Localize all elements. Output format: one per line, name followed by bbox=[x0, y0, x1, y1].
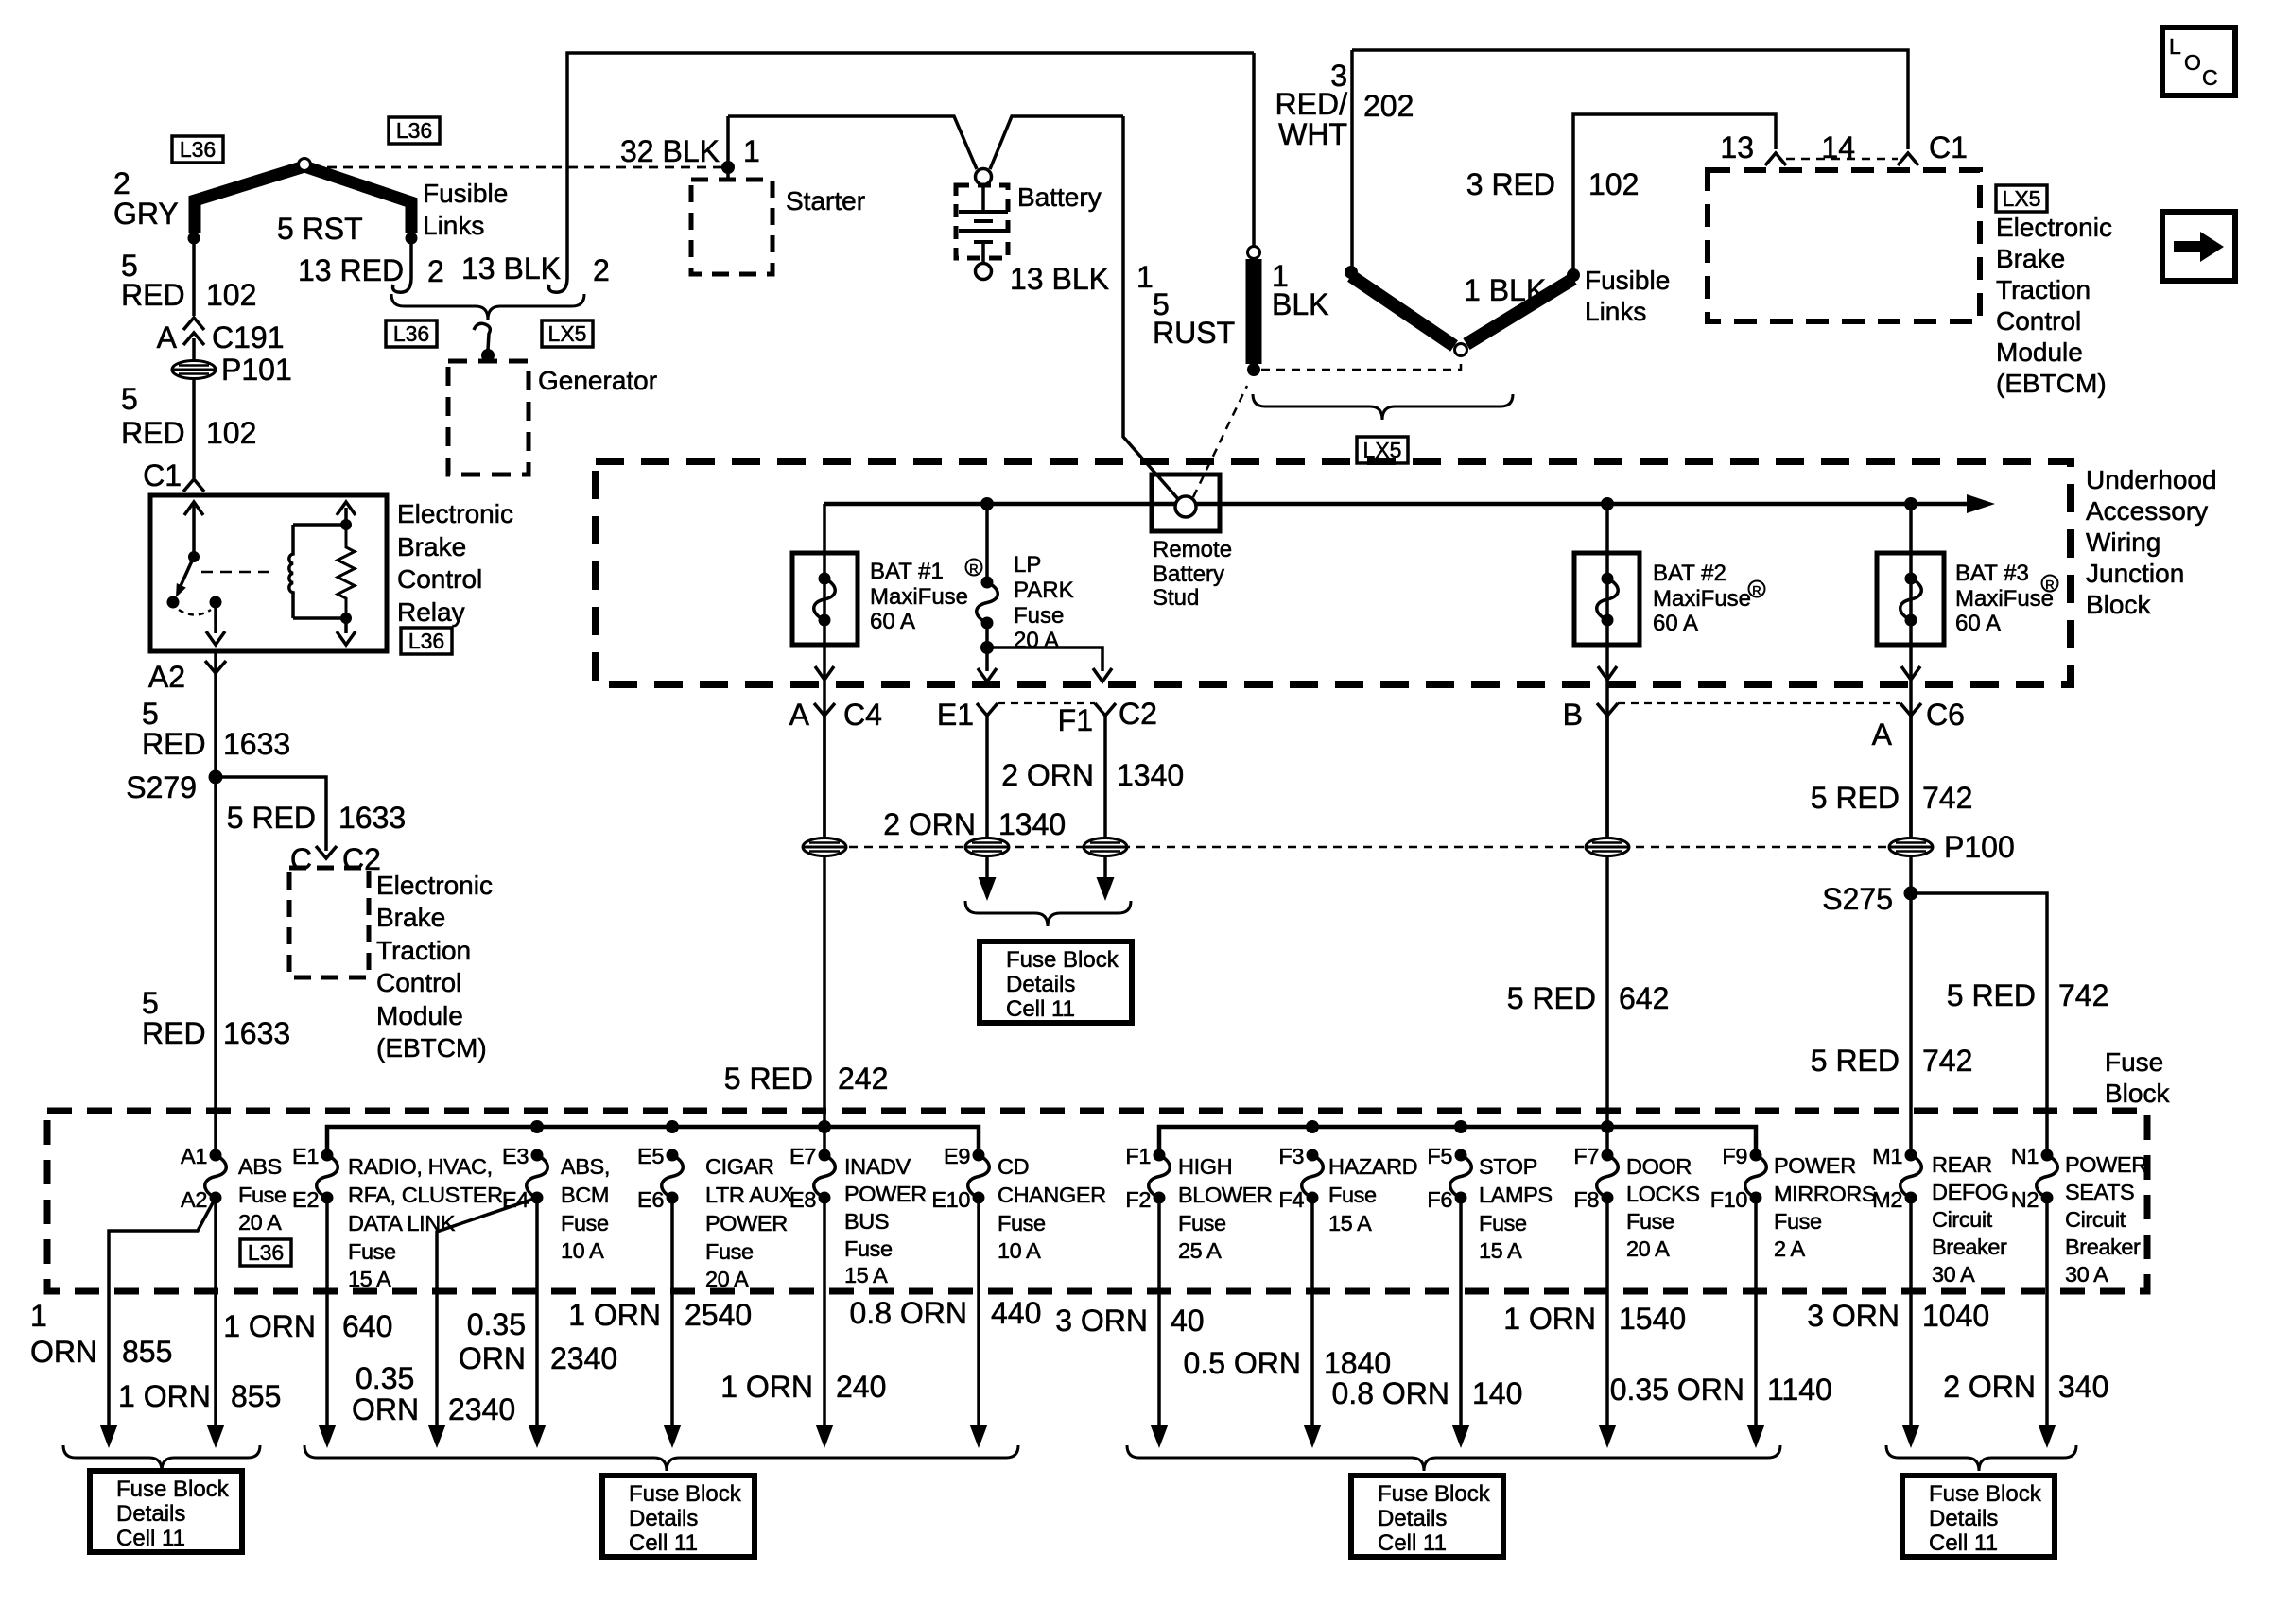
svg-text:L36: L36 bbox=[180, 137, 216, 162]
svg-text:3 ORN: 3 ORN bbox=[1807, 1299, 1900, 1333]
connector C4 chevron bbox=[814, 703, 835, 716]
svg-text:Block: Block bbox=[2105, 1079, 2170, 1108]
brace F wires bbox=[1127, 1445, 1780, 1471]
BAT #3 MaxiFuse box bbox=[1877, 553, 1944, 645]
svg-text:Relay: Relay bbox=[397, 597, 465, 627]
svg-text:ORN: ORN bbox=[30, 1335, 97, 1369]
brace M/N wires bbox=[1886, 1445, 2076, 1471]
svg-text:BCM: BCM bbox=[561, 1183, 609, 1207]
wire B down through P100 bbox=[1605, 716, 1609, 838]
arrow legend box bbox=[2162, 212, 2235, 281]
svg-text:BUS: BUS bbox=[844, 1209, 889, 1234]
svg-text:E1: E1 bbox=[937, 698, 974, 732]
svg-text:RED: RED bbox=[121, 416, 185, 450]
fusible link 1 BLK (thick bar) bbox=[1252, 53, 1256, 247]
svg-text:855: 855 bbox=[122, 1335, 172, 1369]
svg-text:L: L bbox=[2169, 34, 2181, 59]
fuse ABS/BCM 10 A bbox=[527, 1155, 548, 1198]
svg-text:ABS: ABS bbox=[238, 1154, 282, 1179]
fuse STOP LAMPS 15 A bbox=[1450, 1155, 1472, 1198]
Underhood Accessory Wiring Junction Block dashed box bbox=[596, 461, 2071, 684]
svg-text:Module: Module bbox=[376, 1001, 463, 1030]
junction dot below RST link bbox=[406, 233, 418, 245]
arrow LP PARK E1 at block edge bbox=[978, 668, 997, 682]
Fuse Block Details Cell 11 box (F) bbox=[1351, 1476, 1503, 1557]
svg-text:1140: 1140 bbox=[1767, 1373, 1832, 1407]
svg-text:Junction: Junction bbox=[2086, 559, 2184, 588]
svg-text:B: B bbox=[1563, 698, 1583, 732]
svg-text:CD: CD bbox=[998, 1154, 1029, 1179]
generator pigtail lead bbox=[474, 323, 490, 350]
circuit breaker POWER SEATS 30 A bbox=[2037, 1155, 2058, 1198]
svg-text:Details: Details bbox=[1929, 1506, 1998, 1531]
svg-text:15 A: 15 A bbox=[1479, 1238, 1522, 1263]
svg-text:F9: F9 bbox=[1722, 1144, 1747, 1168]
dashed bulkhead line P100 bbox=[804, 846, 1934, 849]
svg-text:Fusible: Fusible bbox=[423, 179, 508, 208]
svg-text:REAR: REAR bbox=[1932, 1152, 1992, 1177]
fuse LP PARK 20 A bbox=[977, 582, 998, 623]
L36 reference box (left) bbox=[172, 136, 223, 163]
svg-text:25 A: 25 A bbox=[1178, 1238, 1222, 1263]
battery bottom terminal circle bbox=[976, 264, 992, 280]
svg-text:A: A bbox=[789, 698, 810, 732]
svg-text:Links: Links bbox=[1585, 297, 1646, 326]
L36 reference box (generator) bbox=[386, 320, 437, 347]
arrow wire end x=2165 bbox=[2039, 1425, 2056, 1448]
svg-text:LX5: LX5 bbox=[2003, 186, 2041, 211]
svg-text:Fuse Block: Fuse Block bbox=[1378, 1481, 1491, 1507]
rail junction at E7 feed bbox=[818, 1120, 831, 1133]
svg-text:102: 102 bbox=[206, 416, 256, 450]
connector C2-E1 chevron bbox=[977, 703, 998, 716]
svg-text:RED: RED bbox=[142, 727, 206, 761]
brace over generator leads bbox=[391, 294, 584, 320]
relay switch contact dot (left) bbox=[167, 596, 180, 609]
wire: S279 branch to EBTCM C2 bbox=[216, 777, 326, 851]
svg-text:5 RED: 5 RED bbox=[1811, 781, 1900, 815]
fuse ABS 20 A bbox=[205, 1155, 227, 1198]
relay switch contact dot (right) bbox=[210, 596, 222, 609]
svg-text:742: 742 bbox=[2058, 978, 2108, 1012]
svg-text:15 A: 15 A bbox=[844, 1263, 888, 1287]
svg-text:Breaker: Breaker bbox=[2065, 1235, 2141, 1259]
battery cell symbol bbox=[981, 185, 985, 210]
svg-text:5: 5 bbox=[142, 986, 159, 1020]
svg-text:742: 742 bbox=[1922, 781, 1972, 815]
svg-text:C1: C1 bbox=[1929, 130, 1968, 164]
arrow wire end x=1857 bbox=[1747, 1425, 1765, 1448]
svg-text:F1: F1 bbox=[1058, 703, 1093, 737]
Fuse Block Details Cell 11 box (M/N) bbox=[1902, 1476, 2055, 1557]
svg-text:SEATS: SEATS bbox=[2065, 1180, 2134, 1204]
dashed connector line B-A bbox=[1618, 702, 1900, 704]
arrow wire end x=462 bbox=[428, 1425, 446, 1448]
LX5 reference box (generator) bbox=[542, 320, 593, 347]
svg-text:M2: M2 bbox=[1872, 1187, 1902, 1212]
relay resistor bbox=[338, 525, 355, 618]
svg-text:A1: A1 bbox=[181, 1144, 207, 1168]
Generator dashed box bbox=[448, 361, 529, 475]
fuse block rail F row bbox=[1159, 1127, 1756, 1155]
svg-text:Breaker: Breaker bbox=[1932, 1235, 2007, 1259]
fusible link RST (thick right segment) bbox=[304, 166, 411, 233]
svg-text:Fuse: Fuse bbox=[1178, 1211, 1226, 1235]
svg-text:Fuse: Fuse bbox=[998, 1211, 1046, 1235]
relay coil bbox=[289, 525, 293, 618]
svg-text:1: 1 bbox=[1136, 260, 1154, 294]
wire M2 output down bbox=[1909, 1198, 1913, 1426]
connector C191 double chevron bbox=[183, 318, 204, 330]
arrow wire end x=115 bbox=[100, 1425, 118, 1448]
wire: 5 RED 1633 from relay A2 to S279 bbox=[214, 651, 217, 777]
grommet (E1 wire) bbox=[965, 838, 1009, 856]
grommet (C4 wire) bbox=[803, 838, 846, 856]
wire: top run to EBTCM pin 14 bbox=[1352, 50, 1908, 149]
svg-text:POWER: POWER bbox=[1774, 1153, 1856, 1178]
svg-text:242: 242 bbox=[838, 1062, 888, 1096]
svg-text:S279: S279 bbox=[126, 770, 197, 804]
arrow wire end x=1700 bbox=[1599, 1425, 1617, 1448]
wire E10 output down bbox=[977, 1198, 980, 1426]
svg-text:Fuse: Fuse bbox=[1626, 1209, 1674, 1234]
svg-text:MaxiFuse: MaxiFuse bbox=[870, 584, 968, 610]
dashed connector line pins 13-14 bbox=[1786, 158, 1898, 161]
svg-text:MIRRORS: MIRRORS bbox=[1774, 1182, 1876, 1206]
svg-text:Brake: Brake bbox=[397, 532, 466, 561]
svg-text:20 A: 20 A bbox=[705, 1267, 749, 1291]
arrow E1 wire end bbox=[979, 877, 997, 901]
svg-text:Electronic: Electronic bbox=[376, 871, 493, 900]
wire: dashed tie line from fusible link splice to starter node bbox=[311, 166, 728, 169]
L36 reference box (ABS fuse) bbox=[240, 1239, 291, 1266]
wire C4-A down through P100 bbox=[823, 716, 826, 838]
svg-text:1540: 1540 bbox=[1619, 1302, 1686, 1336]
rail junction at E3 bbox=[530, 1120, 544, 1133]
svg-text:Circuit: Circuit bbox=[2065, 1207, 2126, 1232]
arrow wire end x=568 bbox=[529, 1425, 547, 1448]
svg-text:BAT #3: BAT #3 bbox=[1955, 561, 2029, 586]
svg-text:Control: Control bbox=[397, 564, 482, 594]
wire: 3 RED/WHT 202 vertical bbox=[1350, 50, 1354, 269]
wire F8 output down bbox=[1605, 1198, 1609, 1426]
wire from C191 to P101 bbox=[192, 338, 196, 361]
svg-text:642: 642 bbox=[1619, 981, 1669, 1015]
svg-text:Underhood: Underhood bbox=[2086, 465, 2217, 494]
junction dot LP PARK tap bbox=[980, 497, 994, 510]
svg-text:Cell 11: Cell 11 bbox=[1929, 1530, 1998, 1556]
svg-text:RED/: RED/ bbox=[1275, 87, 1348, 121]
arrow wire end x=1035 bbox=[970, 1425, 988, 1448]
wire: 13 RED 2 from RST link down to pigtail bbox=[409, 238, 413, 278]
svg-text:(EBTCM): (EBTCM) bbox=[1996, 369, 2107, 398]
remote battery stud circle bbox=[1175, 496, 1196, 517]
arrow BAT#1 at block edge bbox=[815, 666, 834, 680]
svg-text:E9: E9 bbox=[944, 1144, 970, 1168]
svg-text:1 ORN: 1 ORN bbox=[568, 1298, 661, 1332]
wire BAT#3 fuse through to fuse block M1 bbox=[1909, 504, 1913, 1155]
svg-text:1 ORN: 1 ORN bbox=[720, 1370, 813, 1404]
svg-text:20 A: 20 A bbox=[238, 1210, 282, 1235]
fuse POWER MIRRORS 2 A bbox=[1745, 1155, 1767, 1198]
BAT #2 MaxiFuse box bbox=[1574, 553, 1640, 645]
svg-text:F6: F6 bbox=[1427, 1187, 1452, 1212]
arrow wire end x=228 bbox=[207, 1425, 225, 1448]
svg-text:C2: C2 bbox=[1119, 697, 1157, 731]
svg-text:Accessory: Accessory bbox=[2086, 496, 2208, 526]
svg-text:CHANGER: CHANGER bbox=[998, 1183, 1106, 1207]
svg-text:(EBTCM): (EBTCM) bbox=[376, 1033, 487, 1063]
svg-text:1633: 1633 bbox=[223, 727, 290, 761]
svg-text:Details: Details bbox=[1378, 1506, 1447, 1531]
fuse HIGH BLOWER 25 A bbox=[1149, 1155, 1171, 1198]
dashed diagonal to remote battery stud bbox=[1193, 386, 1247, 497]
svg-text:Electronic: Electronic bbox=[1996, 213, 2112, 242]
svg-text:E1: E1 bbox=[292, 1144, 319, 1168]
svg-text:13 BLK: 13 BLK bbox=[1010, 262, 1109, 296]
wire BAT#1 fuse through to fuse block E7 bbox=[823, 553, 826, 1155]
rail junction at E5 bbox=[666, 1120, 679, 1133]
svg-text:E10: E10 bbox=[931, 1187, 970, 1212]
svg-text:5 RED: 5 RED bbox=[1811, 1044, 1900, 1078]
svg-text:F1: F1 bbox=[1125, 1144, 1151, 1168]
svg-text:Starter: Starter bbox=[786, 186, 865, 216]
svg-text:Fuse: Fuse bbox=[1014, 603, 1064, 629]
svg-text:5 RED: 5 RED bbox=[1507, 981, 1596, 1015]
fuse block rail E row bbox=[327, 1127, 979, 1155]
svg-text:30 A: 30 A bbox=[2065, 1262, 2108, 1287]
svg-text:742: 742 bbox=[1922, 1044, 1972, 1078]
fuse BAT #2 MaxiFuse 60 A bbox=[1597, 579, 1619, 620]
splice open circle at V links bbox=[1455, 344, 1467, 356]
svg-text:Fuse: Fuse bbox=[348, 1239, 396, 1264]
svg-text:Cell 11: Cell 11 bbox=[629, 1530, 698, 1556]
svg-text:Stud: Stud bbox=[1153, 585, 1199, 611]
svg-text:F8: F8 bbox=[1573, 1187, 1599, 1212]
wire BAT#2 fuse through to fuse block F7 bbox=[1605, 504, 1609, 1155]
svg-text:Cell 11: Cell 11 bbox=[116, 1526, 185, 1551]
svg-text:640: 640 bbox=[342, 1309, 392, 1343]
svg-text:E7: E7 bbox=[789, 1144, 816, 1168]
svg-text:RADIO, HVAC,: RADIO, HVAC, bbox=[348, 1154, 493, 1179]
svg-text:C2: C2 bbox=[342, 842, 381, 876]
svg-text:L36: L36 bbox=[396, 118, 432, 143]
svg-text:LOCKS: LOCKS bbox=[1626, 1182, 1700, 1206]
wire LP PARK branch to F1 bbox=[987, 648, 1102, 671]
svg-text:0.8 ORN: 0.8 ORN bbox=[850, 1296, 967, 1330]
fuse INADV POWER BUS 15 A bbox=[814, 1155, 836, 1198]
svg-text:1840: 1840 bbox=[1324, 1346, 1391, 1380]
svg-text:3 ORN: 3 ORN bbox=[1055, 1304, 1148, 1338]
wire 2 ORN 1340 (F1) bbox=[1103, 716, 1107, 838]
svg-text:DOOR: DOOR bbox=[1626, 1154, 1692, 1179]
svg-text:Battery: Battery bbox=[1017, 182, 1102, 212]
wire: 5 RUST 1 to remote battery stud bbox=[1123, 116, 1179, 500]
svg-text:MaxiFuse: MaxiFuse bbox=[1955, 586, 2054, 612]
svg-text:Brake: Brake bbox=[376, 903, 445, 932]
svg-text:240: 240 bbox=[836, 1370, 886, 1404]
svg-text:13 BLK: 13 BLK bbox=[461, 251, 561, 285]
Fuse Block Details Cell 11 box (left) bbox=[90, 1471, 242, 1552]
svg-text:L36: L36 bbox=[248, 1240, 284, 1265]
svg-text:Block: Block bbox=[2086, 590, 2151, 619]
Remote Battery Stud box bbox=[1152, 475, 1220, 531]
svg-text:1: 1 bbox=[743, 134, 760, 168]
svg-text:1 BLK: 1 BLK bbox=[1464, 273, 1546, 307]
svg-text:P101: P101 bbox=[221, 353, 292, 387]
fuse DOOR LOCKS 20 A bbox=[1597, 1155, 1619, 1198]
hook pigtail at bottom of 13 BLK 2 wire bbox=[549, 278, 567, 292]
brace under V links bbox=[1253, 394, 1513, 420]
svg-text:DEFOG: DEFOG bbox=[1932, 1180, 2009, 1204]
svg-text:C191: C191 bbox=[212, 320, 285, 354]
svg-text:60 A: 60 A bbox=[870, 609, 915, 634]
wire: battery positive run at top bbox=[728, 116, 977, 169]
svg-text:5 RED: 5 RED bbox=[724, 1062, 813, 1096]
relay switch dashed link to coil bbox=[201, 571, 276, 574]
bus arrowhead bbox=[1967, 494, 1995, 513]
svg-text:Brake: Brake bbox=[1996, 244, 2065, 273]
svg-text:1633: 1633 bbox=[338, 801, 406, 835]
svg-text:INADV: INADV bbox=[844, 1154, 911, 1179]
svg-text:C1: C1 bbox=[143, 458, 182, 492]
wire E8 output down bbox=[823, 1198, 826, 1426]
svg-text:WHT: WHT bbox=[1278, 117, 1347, 151]
svg-text:O: O bbox=[2184, 50, 2201, 75]
svg-text:RED: RED bbox=[121, 278, 185, 312]
L36 reference box (middle) bbox=[389, 117, 440, 144]
relay switch pivot dot bbox=[188, 551, 200, 562]
wire E6 output down bbox=[670, 1198, 674, 1426]
svg-text:ORN: ORN bbox=[352, 1392, 419, 1426]
wire E4 output down bbox=[535, 1198, 539, 1426]
svg-text:40: 40 bbox=[1171, 1304, 1205, 1338]
svg-text:1 ORN: 1 ORN bbox=[118, 1379, 211, 1413]
svg-text:0.35: 0.35 bbox=[356, 1361, 414, 1395]
svg-text:2 ORN: 2 ORN bbox=[1001, 758, 1094, 792]
svg-text:Fuse Block: Fuse Block bbox=[1929, 1481, 2042, 1507]
grommet (B wire) bbox=[1586, 838, 1629, 856]
svg-text:Module: Module bbox=[1996, 337, 2083, 367]
junction dot BAT#3 tap bbox=[1904, 497, 1917, 510]
svg-text:0.5 ORN: 0.5 ORN bbox=[1184, 1346, 1301, 1380]
fuse CD CHANGER 10 A bbox=[968, 1155, 990, 1198]
svg-text:N1: N1 bbox=[2011, 1144, 2039, 1168]
svg-text:20 A: 20 A bbox=[1626, 1236, 1670, 1261]
svg-text:1: 1 bbox=[30, 1299, 47, 1333]
svg-text:2: 2 bbox=[593, 253, 610, 287]
arrow BAT#2 at block edge bbox=[1598, 666, 1617, 680]
fuse HAZARD 15 A bbox=[1302, 1155, 1324, 1198]
svg-text:Generator: Generator bbox=[538, 366, 657, 395]
svg-text:Fuse Block: Fuse Block bbox=[1006, 947, 1119, 973]
svg-text:Fuse: Fuse bbox=[1328, 1183, 1377, 1207]
svg-text:E2: E2 bbox=[292, 1187, 319, 1212]
relay switch dashed actuator arc bbox=[179, 610, 211, 615]
relay internal top rail bbox=[293, 523, 346, 527]
Fuse Block dashed box bbox=[47, 1111, 2147, 1291]
connector C6-A chevron bbox=[1900, 703, 1921, 716]
svg-text:855: 855 bbox=[231, 1379, 281, 1413]
dot above V left link bbox=[1345, 266, 1358, 279]
svg-text:1040: 1040 bbox=[1922, 1299, 1989, 1333]
svg-text:140: 140 bbox=[1472, 1376, 1522, 1410]
fuse CIGAR LTR AUX POWER 20 A bbox=[662, 1155, 684, 1198]
svg-text:HIGH: HIGH bbox=[1178, 1154, 1232, 1179]
relay internal bottom rail bbox=[293, 616, 346, 620]
svg-text:F10: F10 bbox=[1710, 1187, 1748, 1212]
svg-text:R: R bbox=[969, 561, 978, 576]
svg-text:3 RED: 3 RED bbox=[1466, 167, 1555, 201]
grommet P101 bbox=[172, 361, 216, 379]
svg-text:Control: Control bbox=[376, 968, 461, 997]
svg-text:Cell 11: Cell 11 bbox=[1006, 996, 1075, 1022]
svg-text:BAT #1: BAT #1 bbox=[870, 559, 944, 584]
relay bottom rail junction dot bbox=[340, 613, 352, 624]
splice S275 bbox=[1904, 887, 1918, 901]
svg-text:60 A: 60 A bbox=[1955, 611, 2001, 636]
svg-text:HAZARD: HAZARD bbox=[1328, 1154, 1417, 1179]
svg-text:Cell 11: Cell 11 bbox=[1378, 1530, 1447, 1556]
svg-text:Fuse Block: Fuse Block bbox=[629, 1481, 742, 1507]
junction dot BAT#2 tap bbox=[1601, 497, 1614, 510]
rail junction at F3 bbox=[1306, 1120, 1319, 1133]
svg-text:Circuit: Circuit bbox=[1932, 1207, 1993, 1232]
svg-text:Traction: Traction bbox=[1996, 275, 2091, 304]
arrow wire end x=711 bbox=[664, 1425, 682, 1448]
connector C1 chevron bbox=[183, 479, 204, 492]
svg-text:LTR AUX: LTR AUX bbox=[705, 1183, 794, 1207]
wire E4 branch (0.35 ORN 2340) bbox=[437, 1198, 537, 1426]
wire: top bus 32 BLK (left horizontal run) bbox=[567, 53, 1254, 278]
svg-text:0.35: 0.35 bbox=[467, 1307, 526, 1341]
wire: 32 BLK 1 starter feed bbox=[726, 116, 730, 180]
svg-text:2340: 2340 bbox=[550, 1341, 617, 1375]
Electronic Brake Control Relay box bbox=[150, 495, 387, 651]
wire F2 output down bbox=[1157, 1198, 1161, 1426]
svg-text:13 RED: 13 RED bbox=[298, 253, 404, 287]
svg-text:POWER: POWER bbox=[2065, 1152, 2147, 1177]
relay top rail junction dot bbox=[340, 519, 352, 530]
svg-text:5 RED: 5 RED bbox=[1947, 978, 2036, 1012]
svg-text:10 A: 10 A bbox=[561, 1238, 604, 1263]
svg-text:32 BLK: 32 BLK bbox=[620, 134, 720, 168]
wire N2 output down bbox=[2045, 1198, 2049, 1426]
arrow wire end x=872 bbox=[816, 1425, 834, 1448]
svg-text:2 A: 2 A bbox=[1774, 1236, 1806, 1261]
generator terminal dot bbox=[481, 349, 495, 362]
svg-text:C6: C6 bbox=[1926, 698, 1965, 732]
EBTCM (top right) dashed box bbox=[1708, 170, 1980, 321]
connector A2 chevron bbox=[205, 661, 226, 673]
connector pin 14 chevron bbox=[1898, 153, 1918, 165]
brace A wires bbox=[63, 1445, 260, 1471]
svg-text:BAT #2: BAT #2 bbox=[1653, 561, 1726, 586]
BAT #1 MaxiFuse wire from bus bbox=[823, 504, 826, 553]
svg-text:RUST: RUST bbox=[1153, 316, 1235, 350]
arrow wire end x=1388 bbox=[1304, 1425, 1322, 1448]
relay bottom-right arrow (down) bbox=[344, 618, 348, 633]
relay switch blade with arrowhead bbox=[180, 557, 194, 588]
connector C6-B chevron bbox=[1597, 703, 1618, 716]
brace E1/F1 to fuse block details bbox=[965, 901, 1131, 926]
svg-text:RED: RED bbox=[142, 1016, 206, 1050]
svg-text:F3: F3 bbox=[1278, 1144, 1304, 1168]
hook pigtail at bottom of 13 RED 2 wire bbox=[393, 278, 411, 292]
svg-text:1340: 1340 bbox=[1117, 758, 1184, 792]
LX5 reference box (EBTCM) bbox=[1996, 185, 2047, 212]
svg-text:5 RST: 5 RST bbox=[277, 212, 363, 246]
